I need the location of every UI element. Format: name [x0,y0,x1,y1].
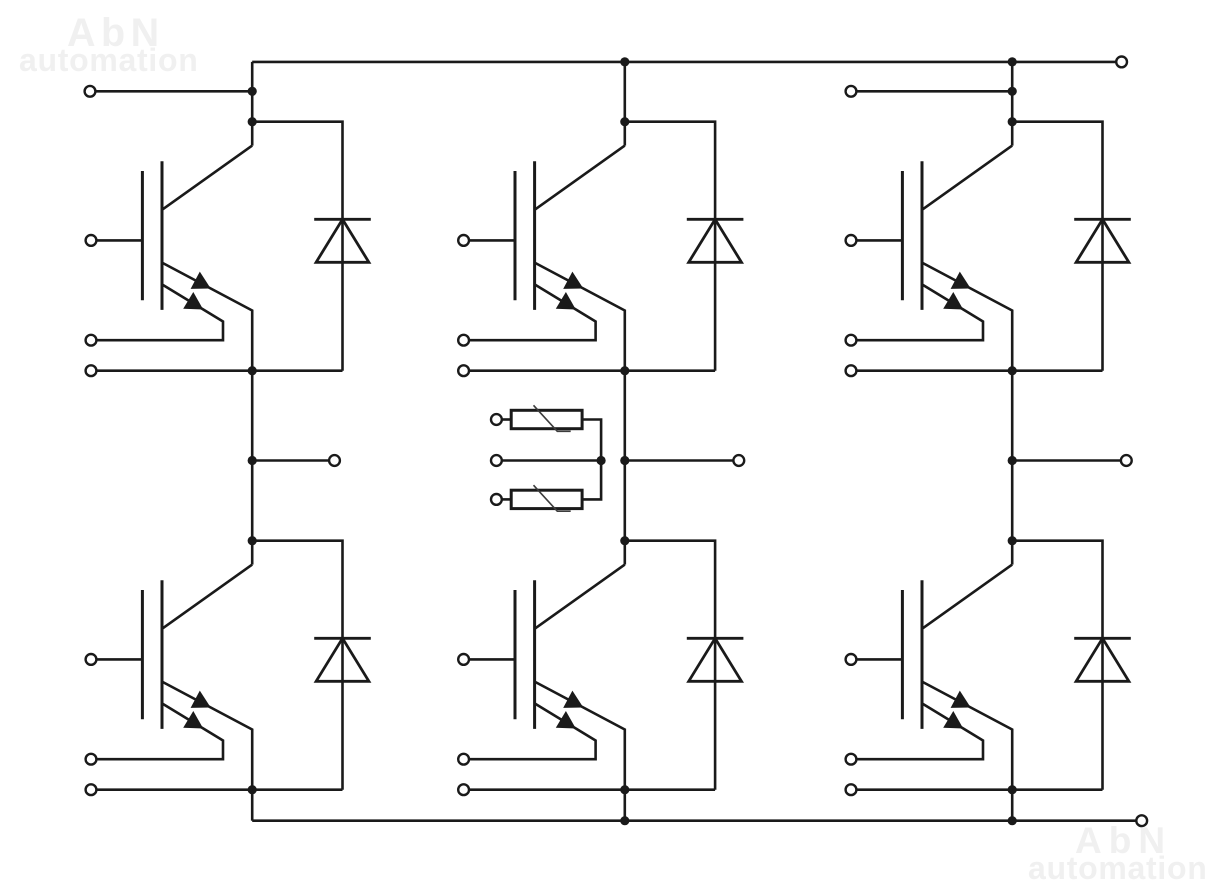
terminal G1 (gate Q1) [86,235,97,246]
junction: DC- bus tap (phase 2) [620,816,629,825]
terminal G5 (gate Q5) [846,235,857,246]
wire: auxiliary emitter lead Q4 [469,703,596,759]
wire: gate lead Q2 [96,658,142,661]
wire: phase 1 column, bus to IGBT Q1 collector bend [251,62,254,146]
IGBT Q6 (phase 3 low side) [902,565,1012,790]
junction: emitter node Q4 [620,785,629,794]
watermark automation bottom-right [1028,850,1207,887]
wire: phase 2 column, emitter Q4 to DC- bus [623,790,626,821]
terminal E2 (emitter Q2) [86,784,97,795]
terminal E1aux (aux emitter Q1) [86,335,97,346]
junction: emitter node Q2 [248,785,257,794]
wire: gate lead Q3 [469,239,515,242]
IGBT Q3 (phase 2 high side) [515,146,625,371]
terminal G3 (gate Q3) [458,235,469,246]
terminal G2 (gate Q2) [86,654,97,665]
junction: collector node Q6/D6 [1008,536,1017,545]
terminal E3 (emitter Q3) [458,365,469,376]
wire: AC output phase 3 [1012,459,1121,462]
junction: emitter node Q6 [1008,785,1017,794]
terminal T1 (thermistor R1) [491,414,502,425]
diode D6 (freewheel, low side phase 3) [1074,638,1131,681]
wire: column bend into IGBT Q4 [623,541,626,565]
diode D2 (freewheel, low side phase 1) [314,638,371,681]
thermistor R1 (NTC) [511,405,582,431]
wire: gate lead Q4 [469,658,515,661]
terminal E1 (emitter Q1) [86,365,97,376]
wire: gate lead Q5 [856,239,902,242]
terminal E5aux (aux emitter Q5) [846,335,857,346]
wire: column bend into IGBT Q2 [251,541,254,565]
wire: collector node to diode D3 branch [625,122,715,371]
wire: collector terminal to column (phase 3) [856,90,1012,93]
terminal E4 (emitter Q4) [458,784,469,795]
junction: collector terminal node (phase 1) [248,87,257,96]
watermark AbN bottom-right [1075,820,1172,862]
wire: phase 3 column, emitter Q5 to collector node Q6 [1011,371,1014,541]
wire: thermistor R2 to center tap [582,461,601,500]
wire: phase 1 column, emitter Q2 to DC- bus [251,790,254,821]
wire: AC output phase 1 [252,459,329,462]
wire: gate lead Q1 [96,239,142,242]
wire: emitter row Q5 to diode D5 anode [856,369,1102,372]
diode D5 (freewheel, high side phase 3) [1074,219,1131,262]
junction: thermistor center tap [597,456,606,465]
junction: collector terminal node (phase 3) [1008,87,1017,96]
junction: emitter node Q5 [1008,366,1017,375]
wire: phase 1 column, emitter Q1 to collector node Q2 [251,371,254,541]
terminal E2aux (aux emitter Q2) [86,754,97,765]
terminal AC1 (phase output 1) [329,455,340,466]
wire: column bend into IGBT Q6 [1011,541,1014,565]
terminal E5 (emitter Q5) [846,365,857,376]
watermark automation top-left [19,42,198,79]
junction: collector node Q5/D5 [1008,117,1017,126]
wire: phase 3 column, bus to IGBT Q5 collector bend [1011,62,1014,146]
wire: phase 2 column, emitter Q3 to collector node Q4 [623,371,626,541]
wire: AC output phase 2 [625,459,734,462]
wire: thermistor R1 to center tap [582,420,601,461]
wire: auxiliary emitter lead Q2 [96,703,223,759]
terminal N (DC-) [1136,815,1147,826]
junction: DC+ bus tap (phase 3) [1008,57,1017,66]
terminal G4 (gate Q4) [458,654,469,665]
wire: auxiliary emitter lead Q1 [96,284,223,340]
junction: emitter node Q1 [248,366,257,375]
terminal E4aux (aux emitter Q4) [458,754,469,765]
wire: emitter row Q6 to diode D6 anode [856,788,1102,791]
wire: collector node to diode D1 branch [252,122,342,371]
junction: collector node Q1/D1 [248,117,257,126]
wire: T1 to thermistor R1 [502,418,511,421]
wire: emitter row Q3 to diode D3 anode [469,369,715,372]
junction: collector node Q2/D2 [248,536,257,545]
wire: collector node to diode D6 branch [1012,541,1102,790]
junction: emitter node Q3 [620,366,629,375]
wire: auxiliary emitter lead Q3 [469,284,596,340]
wire: auxiliary emitter lead Q6 [856,703,983,759]
wire: emitter row Q4 to diode D4 anode [469,788,715,791]
wire: T2 to center tap node [502,459,601,462]
wire: DC+ top bus [252,61,1116,64]
wire: gate lead Q6 [856,658,902,661]
terminal AC2 (phase output 2) [733,455,744,466]
wire: emitter row Q1 to diode D1 anode [96,369,342,372]
junction: DC- bus tap (phase 3) [1008,816,1017,825]
watermark AbN top-left [67,11,165,56]
IGBT Q2 (phase 1 low side) [142,565,252,790]
diode D4 (freewheel, low side phase 2) [687,638,744,681]
wire: collector terminal to column (phase 1) [95,90,252,93]
wire: phase 3 column, emitter Q6 to DC- bus [1011,790,1014,821]
junction: collector node Q3/D3 [620,117,629,126]
thermistor R2 (NTC) [511,485,582,511]
wire: DC- bottom bus [252,819,1136,822]
terminal T2 (thermistor center tap) [491,455,502,466]
diode D1 (freewheel, high side phase 1) [314,219,371,262]
terminal AC3 (phase output 3) [1121,455,1132,466]
junction: DC+ bus tap (phase 2) [620,57,629,66]
wire: phase 2 column, bus to IGBT Q3 collector bend [623,62,626,146]
wire: collector node to diode D4 branch [625,541,715,790]
IGBT Q5 (phase 3 high side) [902,146,1012,371]
junction: collector node Q4/D4 [620,536,629,545]
diode D3 (freewheel, high side phase 2) [687,219,744,262]
wire: T3 to thermistor R2 [502,498,511,501]
terminal E3aux (aux emitter Q3) [458,335,469,346]
wire: collector node to diode D5 branch [1012,122,1102,371]
terminal G6 (gate Q6) [846,654,857,665]
terminal C1 (collector, phase 1) [85,86,96,97]
terminal P (DC+) [1116,57,1127,68]
junction: AC output tap phase 1 [248,456,257,465]
terminal E6 (emitter Q6) [846,784,857,795]
IGBT Q4 (phase 2 low side) [515,565,625,790]
junction: AC output tap phase 2 [620,456,629,465]
wire: emitter row Q2 to diode D2 anode [96,788,342,791]
terminal E6aux (aux emitter Q6) [846,754,857,765]
junction: AC output tap phase 3 [1008,456,1017,465]
wire: collector node to diode D2 branch [252,541,342,790]
terminal T3 (thermistor R2) [491,494,502,505]
IGBT Q1 (phase 1 high side) [142,146,252,371]
wire: auxiliary emitter lead Q5 [856,284,983,340]
terminal C5 (collector, phase 3) [846,86,857,97]
